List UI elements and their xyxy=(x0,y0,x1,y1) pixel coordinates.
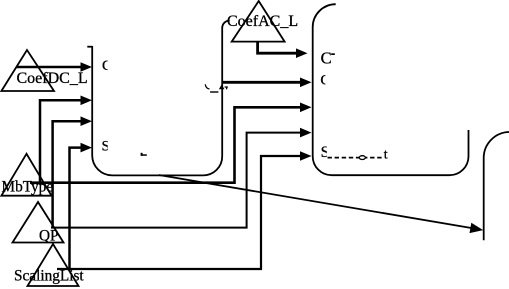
text fragment curve near U1 right edge xyxy=(205,84,209,89)
input triangle QP xyxy=(13,202,64,243)
text fragment t on U1 right edge xyxy=(219,84,228,89)
wire CoefDC_L to U1 xyxy=(16,62,92,72)
svg-text:CoefDC_L: CoefDC_L xyxy=(17,70,88,87)
block U1 top-left stub xyxy=(87,46,92,48)
svg-text:C: C xyxy=(102,58,112,74)
svg-text:CoefAC_L: CoefAC_L xyxy=(227,13,298,30)
input triangle ScalingList xyxy=(28,244,79,286)
svg-text:MbType: MbType xyxy=(2,179,54,196)
text fragment S in U1 xyxy=(102,139,110,155)
text fragment S dashed o t in U2 bottom xyxy=(321,144,388,163)
svg-text:S: S xyxy=(102,139,110,155)
wire QP main to U2 xyxy=(51,128,312,228)
wire diagonal U1 output to U3 xyxy=(159,175,483,233)
input triangle CoefAC_L xyxy=(232,1,285,42)
wire ScalingList main to U2 xyxy=(57,151,312,269)
input triangle CoefDC_L xyxy=(1,50,54,91)
text fragment small curve in U1 xyxy=(141,153,147,156)
wire MbType main to U2 xyxy=(30,103,312,183)
wire QP branch to U1 xyxy=(53,116,92,227)
svg-text:C: C xyxy=(321,48,332,67)
svg-text:t: t xyxy=(384,148,388,163)
input triangle MbType xyxy=(1,154,51,196)
block U2 transform process (clipped rounded rect) xyxy=(313,4,469,175)
block U1 scaling process (clipped rounded rect) xyxy=(92,21,230,176)
text fragment underscore near U1 right edge xyxy=(210,91,218,92)
block U3 construction process (clipped, right edge of canvas) xyxy=(484,132,509,240)
wire U1 right edge to U2 xyxy=(222,78,311,88)
wire ScalingList branch to U1 xyxy=(70,143,93,269)
svg-text:QP: QP xyxy=(39,228,59,245)
text fragment C dash in U2 xyxy=(321,48,335,67)
wire MbType branch to U1 xyxy=(40,96,92,183)
text fragment C in U1 xyxy=(102,58,112,74)
text fragment ( in U2 xyxy=(320,72,330,88)
wire CoefAC_L to U2 xyxy=(258,42,308,58)
svg-text:C: C xyxy=(320,72,330,88)
